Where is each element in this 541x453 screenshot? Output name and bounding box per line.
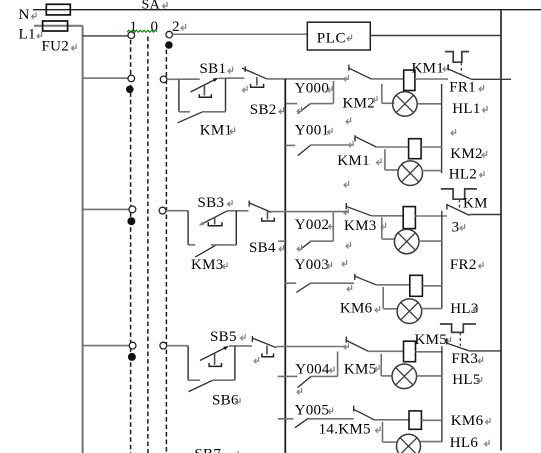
- wire: SB5 to SB6: [229, 345, 252, 347]
- stray return mark below KM2 contact label: [346, 117, 351, 124]
- SA dashed cam line position 2: [165, 50, 167, 453]
- contact Y000 (NO): [298, 104, 311, 114]
- wire: lamp HL3 branch vertical: [381, 217, 383, 239]
- contact KM5 movable arm (NC): [347, 341, 369, 352]
- fuse FU1 (N line): [46, 4, 70, 15]
- PLC box: [307, 22, 370, 50]
- return mark after FR2: [479, 262, 484, 269]
- contact KM3 holding (NO): [195, 245, 216, 257]
- wire: KM5 holding branch right: [213, 379, 235, 381]
- contact KM3 fixed tick: [345, 203, 347, 209]
- wire: KM6 to rung4 coil: [376, 284, 410, 286]
- contact SB1 movable arm: [191, 79, 217, 92]
- wire: Y002 left stub: [278, 240, 285, 242]
- contact Y003 (NO): [296, 283, 311, 293]
- return mark after coil KM1: [443, 65, 448, 72]
- wire: KM5 rung6 to coil: [374, 419, 409, 421]
- return mark after HL1: [483, 106, 488, 113]
- return mark after 3: [460, 224, 465, 231]
- wire: lamp HL1 branch horizontal: [382, 102, 395, 104]
- return mark after SB3: [228, 200, 233, 207]
- wire: SA row2 to SB1 node: [167, 78, 180, 80]
- contact Y001 (NO): [298, 145, 311, 155]
- svg-text:SB3: SB3: [198, 195, 225, 211]
- svg-text:N: N: [19, 7, 30, 23]
- fuse FU2: [43, 21, 68, 31]
- wire: rung4 coil to lamp rail: [422, 285, 441, 287]
- return mark after coil KM5: [446, 337, 451, 344]
- arrowhead on SB5 arm: [223, 346, 229, 350]
- svg-text:KM6: KM6: [451, 413, 484, 429]
- return mark after L1: [37, 32, 42, 39]
- contact FR1 fixed tick: [447, 64, 449, 70]
- return mark after FR3: [478, 357, 483, 364]
- return mark under Y000 stub: [297, 107, 302, 114]
- wire: left vertical bus L1: [82, 26, 84, 453]
- wire: lamp rung3 to lamp rail: [419, 240, 442, 242]
- arrow mark on KM2 contact line: [344, 75, 349, 82]
- return mark after Y001: [328, 128, 333, 134]
- arrow mark on KM5 contact line: [344, 343, 349, 350]
- svg-text:KM2: KM2: [450, 146, 483, 162]
- svg-text:SB6: SB6: [212, 393, 239, 409]
- SA row2 contact circle pos2: [160, 76, 167, 83]
- svg-text:SB2: SB2: [250, 102, 277, 118]
- arrow mark on KM6 contact line: [347, 285, 352, 292]
- return mark after SB5: [241, 334, 246, 341]
- svg-text:KM5: KM5: [415, 332, 448, 348]
- return mark after KM3 contact: [381, 223, 386, 230]
- wire: Y002 riser to rung3: [332, 212, 334, 242]
- wire: bus to SA row4 contact: [83, 345, 130, 347]
- thermal relay FR1 release symbol: [445, 52, 469, 63]
- stray return mark right of Y003: [342, 260, 347, 267]
- SB5 pushbutton operator: [214, 354, 216, 365]
- svg-text:FR2: FR2: [450, 257, 477, 273]
- wire: SA row3 to SB3 node: [166, 210, 188, 212]
- wire: SB3 parallel right vertical: [235, 211, 237, 245]
- return mark under Y002 stub: [297, 245, 302, 252]
- wire: bus to SA row1 contact: [83, 35, 128, 37]
- lamp rung4: [397, 299, 422, 324]
- svg-text:HL1: HL1: [452, 101, 480, 117]
- wire: lamp rung4 branch vertical: [382, 287, 384, 309]
- svg-text:FR1: FR1: [449, 80, 476, 96]
- FR1 dashed stem: [460, 62, 462, 74]
- contactor KM3 release symbol: [441, 189, 477, 199]
- SA row3 contact circle pos2: [159, 207, 166, 214]
- SA row1 contact circle pos1: [128, 32, 135, 39]
- return mark after Y000: [328, 86, 333, 93]
- return mark after 14.KM5: [376, 426, 381, 433]
- SB3 pushbutton operator: [214, 218, 216, 225]
- lamp HL6: [397, 434, 421, 453]
- SB6 pushbutton operator: [266, 346, 268, 355]
- contact FR1 movable arm (NC): [448, 69, 472, 79]
- return mark after HL2: [480, 171, 485, 178]
- contact SB3 movable arm: [200, 211, 227, 225]
- wire: N phase line: [33, 9, 541, 11]
- wire: KM5 holding branch left: [188, 379, 200, 381]
- wire: lamp HL2 branch horizontal: [385, 169, 398, 171]
- return mark left of SB6 operator: [254, 357, 259, 364]
- wire: lamp HL5 branch vertical: [380, 354, 382, 376]
- SA row1 cam dot pos2: [165, 41, 173, 49]
- wire: KM2 to KM1 coil: [371, 78, 403, 80]
- return mark after Y004: [330, 366, 335, 373]
- return mark after coil KM2: [482, 151, 487, 158]
- wire: SB1 parallel right vertical: [225, 78, 227, 112]
- wire: Y000 right line: [310, 103, 333, 105]
- SA row3 contact circle pos1: [129, 206, 136, 213]
- svg-text:L1: L1: [19, 27, 36, 43]
- svg-text:PLC: PLC: [317, 30, 346, 46]
- svg-text:HL5: HL5: [452, 372, 480, 388]
- svg-text:HL6: HL6: [450, 435, 479, 451]
- return mark after KM6 coil: [486, 418, 491, 425]
- wire: SB1 upper fixed line: [179, 78, 200, 80]
- wire: bus to SA row2 contact: [83, 77, 128, 79]
- wire: ladder left rail: [284, 79, 286, 453]
- svg-text:SA: SA: [142, 0, 161, 13]
- wire: lamp rung4 branch horizontal: [383, 308, 397, 310]
- contact KM5 rung6 fixed tick: [353, 406, 355, 412]
- wire: KM3 holding branch left: [188, 244, 195, 246]
- return mark after Y002: [329, 222, 334, 229]
- wire: lamp HL1 branch vertical: [381, 84, 383, 104]
- svg-text:Y003: Y003: [295, 257, 330, 273]
- return mark after KM3 holding: [223, 262, 228, 269]
- stray return mark right of lamp rail: [451, 129, 456, 136]
- wire: SB5 parallel left vertical: [187, 346, 189, 381]
- return mark after HL3: [473, 306, 478, 313]
- return mark after KM6 contact: [375, 306, 380, 313]
- svg-text:KM1: KM1: [412, 60, 445, 76]
- wire: KM3 release to right bus: [470, 214, 502, 216]
- svg-text:SB4: SB4: [249, 240, 276, 256]
- arrowhead on SB1 arm: [213, 78, 219, 82]
- contact FR3 movable arm (NC): [447, 343, 470, 351]
- contact KM5 holding (NO): [189, 380, 213, 391]
- contact KM3 movable arm (NC): [346, 206, 371, 216]
- svg-text:KM6: KM6: [340, 300, 373, 316]
- contact SB6 movable arm (NC): [252, 338, 276, 348]
- contact KM1 fixed tick: [354, 135, 356, 141]
- wire: SB2 to ladder rail / KM2 contact: [267, 78, 349, 80]
- svg-text:KM3: KM3: [344, 218, 377, 234]
- wire: lamp HL5 to lamp rail: [417, 375, 442, 377]
- svg-text:FR3: FR3: [451, 351, 478, 367]
- SB1 pushbutton operator: [203, 86, 205, 96]
- coil KM2: [409, 139, 422, 159]
- return mark after KM1 contact: [377, 158, 382, 165]
- wire: Y004 left stub: [278, 375, 298, 377]
- wire: SA row1 to PLC: [173, 33, 308, 35]
- contact KM3 release movable arm: [447, 205, 470, 216]
- wire: KM1 coil to FR1: [415, 78, 448, 80]
- return mark after KM1: [230, 127, 235, 133]
- return mark under Y004 stub: [297, 388, 302, 395]
- contact SB2 movable arm (NC): [242, 68, 267, 79]
- wire: Y004 right line: [311, 375, 338, 377]
- wire: SA row4 to SB5 node: [167, 345, 188, 347]
- wire: lamp HL6 to lamp rail: [420, 441, 442, 443]
- wire: Y003 left stub: [285, 282, 297, 284]
- return mark after KM2: [373, 96, 378, 103]
- return mark after FR1: [479, 85, 484, 92]
- SA row3 cam dot pos1: [127, 217, 135, 225]
- wire: SB3 to SB4: [227, 210, 248, 212]
- wire: SB1 node to SB2: [226, 77, 245, 79]
- contact KM3 release fixed tick: [446, 204, 448, 210]
- svg-text:2: 2: [172, 19, 180, 35]
- svg-text:KM1: KM1: [337, 153, 370, 169]
- wire: SB1 right node line: [219, 77, 226, 79]
- wire: lamp HL5 branch horizontal: [381, 375, 392, 377]
- wire: SB5 parallel right vertical: [234, 346, 236, 380]
- wire: KM1 holding branch left: [179, 111, 190, 113]
- SA row4 cam dot pos1: [128, 353, 136, 361]
- svg-text:KM5: KM5: [344, 361, 377, 377]
- contact FR3 fixed tick: [446, 338, 448, 344]
- wire: SB6 to rung5: [276, 346, 346, 348]
- arrow mark on KM1 contact line: [349, 141, 354, 148]
- contact Y002 (NO): [300, 241, 311, 250]
- wire: lamp HL6 branch vertical: [382, 422, 384, 442]
- gray arrowhead at SB3 arm base: [199, 222, 205, 226]
- SA row2 cam dot pos1: [126, 86, 134, 94]
- svg-text:Y005: Y005: [295, 402, 330, 418]
- SB2 pushbutton operator: [256, 77, 258, 86]
- svg-text:KM3: KM3: [191, 257, 224, 273]
- contact SB4 fixed tick: [248, 201, 250, 207]
- wire: Y000 riser to rung1: [333, 81, 335, 104]
- coil rung6: [409, 411, 421, 429]
- return mark left of SB2 operator: [243, 86, 248, 93]
- svg-text:KM2: KM2: [343, 95, 376, 111]
- wire: Y001 left stub: [285, 144, 295, 146]
- wire: lamp HL3 branch horizontal: [382, 238, 395, 240]
- wire: KM3 holding branch right: [211, 244, 236, 246]
- return mark after SA: [163, 2, 168, 9]
- stray return mark below KM3 contact: [346, 242, 351, 249]
- wire: lamp HL2 branch vertical: [384, 149, 386, 170]
- svg-text:0: 0: [151, 19, 159, 35]
- contact KM1 movable arm (NC): [355, 137, 376, 147]
- contact Y004 (NO): [298, 376, 312, 387]
- coil KM3: [403, 207, 415, 229]
- return mark after KM5 contact: [375, 365, 380, 372]
- svg-text:SB7: SB7: [194, 446, 221, 453]
- contact KM6 fixed tick: [354, 274, 356, 280]
- svg-text:FU2: FU2: [42, 38, 70, 54]
- wire: KM1 to KM2 coil: [376, 146, 408, 148]
- wire: L1 to left bus: [34, 25, 83, 27]
- svg-text:Y001: Y001: [295, 122, 330, 138]
- svg-text:HL2: HL2: [449, 166, 477, 182]
- return mark after Y003: [327, 262, 332, 269]
- return mark after HL6: [485, 440, 490, 447]
- return mark after SB4: [279, 245, 284, 252]
- KM3 release dashed stem: [459, 199, 461, 209]
- wire: Y001 to KM1 contact: [310, 144, 354, 146]
- wire: KM3 coil to KM3 release contact: [415, 215, 447, 217]
- return mark after 2: [181, 24, 186, 31]
- wire: SB4 to rung3: [271, 211, 348, 213]
- wire: KM5 to KM5 coil: [368, 350, 403, 352]
- spellcheck squiggle under 1 0: [127, 30, 157, 32]
- SB4 pushbutton operator: [267, 211, 269, 220]
- wire: Y004 riser: [337, 352, 339, 377]
- arrow mark on KM3 contact line: [344, 208, 349, 215]
- wire: KM5 coil to FR3: [416, 351, 443, 353]
- contact KM1 holding (NO): [178, 112, 203, 123]
- wire: Y005 left stub: [278, 418, 294, 420]
- return mark after SB2: [279, 107, 284, 114]
- SA dashed cam line position 1: [130, 40, 132, 453]
- contact SB5 movable arm: [200, 347, 227, 361]
- wire: rung6 coil to lamp rail: [421, 419, 442, 421]
- contact KM5 fixed tick: [345, 337, 347, 343]
- wire: KM1 holding branch right: [203, 111, 226, 113]
- contact KM6 movable arm (NC): [355, 276, 376, 285]
- wire: FR3 to right bus: [469, 350, 502, 352]
- wire: lamp rail segment A: [441, 84, 443, 173]
- return mark after SB6: [236, 398, 241, 405]
- wire: lamp rung4 to lamp rail: [421, 308, 441, 310]
- wire: SB3 parallel left vertical: [187, 211, 189, 245]
- wire: SB1 parallel left vertical: [178, 79, 180, 112]
- SA row2 contact circle pos1: [128, 75, 135, 82]
- svg-text:SB5: SB5: [210, 329, 237, 345]
- lamp HL2: [398, 161, 423, 186]
- svg-text:Y004: Y004: [295, 361, 330, 377]
- wire: Y000 left stub: [286, 103, 297, 105]
- FR3 dashed stem: [459, 332, 461, 346]
- return mark after PLC: [347, 34, 352, 41]
- SA row1 contact circle pos2: [166, 31, 173, 38]
- contact SB2 fixed tick: [244, 66, 246, 72]
- contact KM5 rung6 movable arm (NC): [354, 410, 374, 420]
- return mark after HL5: [477, 377, 482, 384]
- contact KM2 movable arm (NC): [349, 68, 371, 79]
- svg-text:Y000: Y000: [295, 80, 330, 96]
- svg-text:SB1: SB1: [200, 61, 227, 77]
- wire: right vertical bus: [500, 10, 502, 451]
- return mark after SB1: [228, 67, 233, 74]
- SA row4 contact circle pos2: [160, 342, 167, 349]
- wire: PLC to right bus: [370, 35, 501, 37]
- coil KM1: [404, 70, 415, 90]
- wire: FR1 to right bus: [472, 78, 511, 80]
- stray return mark below KM1 contact label: [344, 181, 349, 188]
- SA dashed cam line position 0: [147, 37, 149, 453]
- wire: lamp HL2 to lamp rail: [422, 170, 442, 172]
- thermal relay FR3 release symbol: [440, 324, 476, 332]
- return mark after FU2: [72, 44, 77, 51]
- lamp rung3: [394, 229, 419, 254]
- wire: lamp HL1 to lamp rail: [417, 103, 441, 105]
- wire: KM3 to KM3 coil: [371, 215, 403, 217]
- wire: Y002 right line: [310, 240, 334, 242]
- SA row4 contact circle pos1: [129, 342, 136, 349]
- lamp HL5: [392, 364, 417, 389]
- wire: bus to SA row3 contact: [83, 208, 129, 210]
- wire: Y005 to KM5 contact: [308, 418, 354, 420]
- contact SB6 fixed tick: [251, 336, 253, 342]
- svg-text:Y002: Y002: [295, 217, 330, 233]
- return mark after N: [32, 12, 37, 19]
- coil rung4: [410, 275, 423, 296]
- wire: lamp rail segment C: [441, 346, 443, 442]
- svg-text:3: 3: [452, 219, 460, 235]
- wire: KM2 coil to lamp rail: [421, 146, 442, 148]
- wire: lamp HL6 branch horizontal: [383, 441, 397, 443]
- coil KM5: [404, 341, 416, 362]
- svg-text:KM: KM: [463, 195, 488, 211]
- contact SB4 movable arm (NC): [249, 203, 271, 213]
- wire: Y003 to KM6 contact: [310, 282, 354, 284]
- lamp HL1: [393, 92, 418, 117]
- return mark after SB7: [234, 451, 239, 453]
- svg-text:KM1: KM1: [200, 122, 233, 138]
- svg-text:14.KM5: 14.KM5: [319, 421, 371, 437]
- contact KM2 fixed tick: [348, 65, 350, 71]
- wire: lamp rail segment B: [441, 211, 443, 309]
- contact Y005 (NO): [295, 418, 308, 427]
- return mark after Y005: [328, 407, 333, 414]
